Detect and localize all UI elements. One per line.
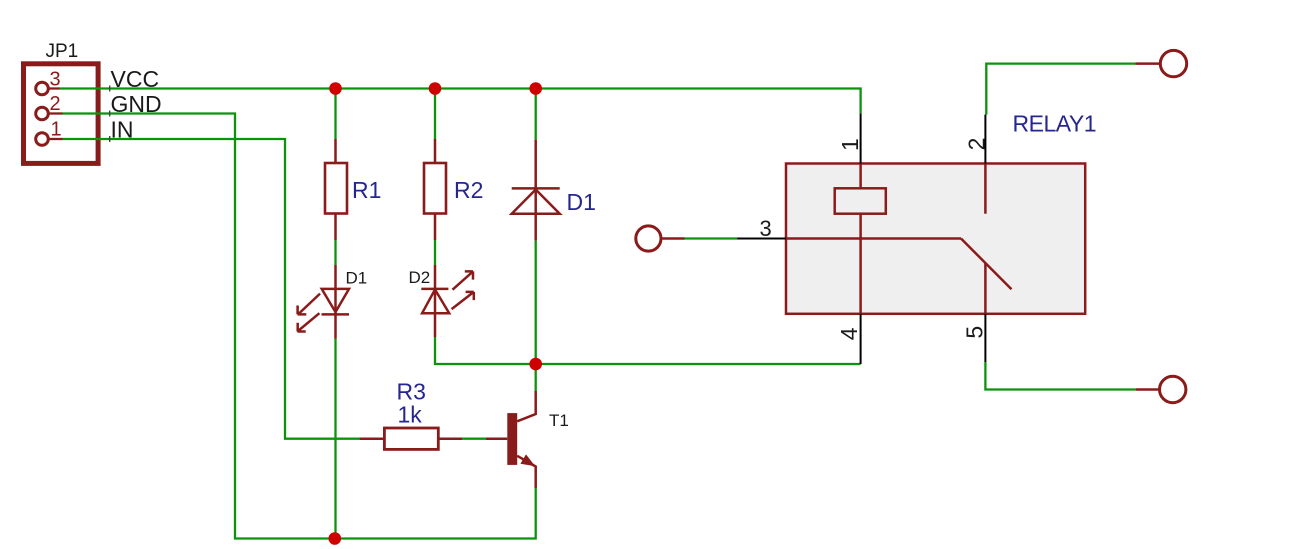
relay switch blade <box>961 239 1012 290</box>
junction dot GND / LED D1 <box>329 532 342 545</box>
resistor R3 left stub <box>360 437 385 440</box>
junction dot VCC / R2 <box>429 82 442 95</box>
svg-text:3: 3 <box>760 216 772 241</box>
svg-text:D1: D1 <box>346 269 368 288</box>
LED D1 arrow 2 <box>297 313 319 331</box>
svg-text:1: 1 <box>51 119 62 141</box>
terminal circle top right <box>1160 50 1186 76</box>
svg-text:R2: R2 <box>454 177 483 203</box>
resistor R3 right stub <box>438 437 462 440</box>
relay coil <box>835 188 886 213</box>
LED D2 triangle <box>422 290 449 314</box>
net label tick IN <box>109 136 110 142</box>
wire R2 / LED D2 column to relay pin 4 <box>435 89 861 365</box>
resistor R3 body <box>384 428 438 449</box>
JP1 pin 3 circle <box>36 82 49 95</box>
terminal circle pin 3 <box>636 226 661 251</box>
wire relay pin 3 <box>684 237 737 239</box>
svg-text:3: 3 <box>50 69 61 91</box>
JP1 pin 1 stub <box>47 138 63 140</box>
relay pin 1 line <box>860 114 862 164</box>
diode D1 triangle <box>512 190 560 214</box>
wire relay pin 2 to top terminal <box>986 64 1135 115</box>
transistor T1 base bar <box>507 413 517 465</box>
wire GND net <box>62 114 536 539</box>
diode D1 pin line <box>534 140 537 241</box>
transistor T1 emitter <box>517 456 536 488</box>
junction dot VCC / D1 <box>529 82 542 95</box>
relay common contact lead <box>786 237 961 240</box>
relay pin 3 line <box>737 238 786 240</box>
LED D2 cathode bar <box>421 288 448 291</box>
wire diode D1 column / collector <box>535 89 537 392</box>
relay coil top lead <box>859 164 862 189</box>
svg-text:1: 1 <box>837 138 863 151</box>
svg-text:R1: R1 <box>352 177 381 203</box>
JP1 pin 3 stub <box>47 87 60 89</box>
junction dot VCC / R1 <box>329 82 342 95</box>
LED D1 pin line <box>334 265 337 339</box>
relay RELAY1 body <box>786 164 1085 314</box>
terminal bottom right stub <box>1136 388 1160 391</box>
connector JP1 body <box>24 64 99 164</box>
svg-text:D1: D1 <box>567 189 596 215</box>
svg-text:4: 4 <box>836 327 862 340</box>
svg-text:2: 2 <box>50 93 61 115</box>
transistor T1 emitter arrow <box>520 454 535 466</box>
LED D2 pin line <box>434 265 437 337</box>
terminal circle bottom right <box>1160 376 1186 402</box>
resistor R1 body <box>325 163 347 214</box>
LED D2 arrow 2 <box>452 292 474 309</box>
relay fixed contact pin 2 lead <box>984 164 987 214</box>
wire IN net <box>62 139 360 439</box>
terminal pin 3 stub <box>661 237 685 240</box>
svg-text:2: 2 <box>964 138 990 151</box>
JP1 pin 2 stub <box>47 112 63 114</box>
wire relay pin 5 to bottom terminal <box>985 362 1135 390</box>
transistor T1 base stub <box>486 437 507 440</box>
svg-text:VCC: VCC <box>111 66 160 92</box>
diode D1 cathode bar <box>512 187 560 190</box>
wire R3 to base <box>462 438 486 440</box>
resistor R1 pin stubs <box>334 139 337 240</box>
transistor T1 collector <box>517 391 536 421</box>
relay pin 2 line <box>984 115 986 164</box>
svg-text:RELAY1: RELAY1 <box>1013 111 1097 137</box>
svg-text:D2: D2 <box>409 268 431 287</box>
LED D1 triangle <box>322 289 349 312</box>
wire R1 / LED D1 column <box>334 89 336 539</box>
net label tick GND <box>109 111 110 117</box>
svg-text:IN: IN <box>111 117 134 143</box>
net label tick VCC <box>109 86 110 92</box>
LED D1 cathode bar <box>322 313 350 316</box>
junction dot collector node <box>529 358 542 371</box>
resistor R2 body <box>424 163 446 214</box>
relay pin 4 line <box>860 314 862 364</box>
svg-text:5: 5 <box>962 326 988 339</box>
relay pin 5 line <box>984 314 986 362</box>
svg-text:JP1: JP1 <box>46 41 79 62</box>
LED D1 arrow 1 <box>298 294 320 315</box>
terminal top right stub <box>1135 62 1160 65</box>
JP1 pin 2 circle <box>36 107 49 120</box>
JP1 pin 1 circle <box>36 133 49 146</box>
relay fixed contact pin 5 lead <box>984 264 987 314</box>
LED D2 arrow 1 <box>453 271 474 289</box>
relay coil bottom lead <box>859 214 862 314</box>
svg-text:GND: GND <box>111 91 162 117</box>
svg-text:1k: 1k <box>398 402 423 428</box>
resistor R2 pin stubs <box>434 139 437 240</box>
wire VCC net <box>59 89 861 114</box>
svg-text:T1: T1 <box>549 411 569 430</box>
